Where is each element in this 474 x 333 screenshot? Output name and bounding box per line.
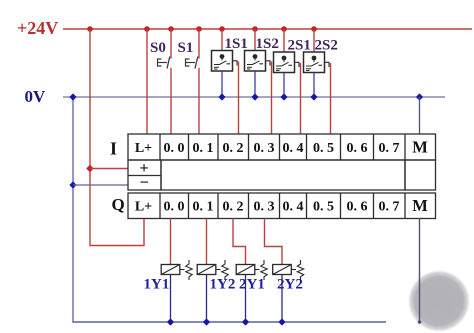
wire bottom 0V return [72, 321, 386, 323]
svg-text:1S1: 1S1 [225, 36, 248, 52]
svg-text:L+: L+ [135, 200, 152, 215]
node plus junction x90 [86, 165, 94, 173]
wire Q0.2 to 2Y1 [233, 219, 246, 265]
table row Q outline [128, 193, 436, 219]
solenoid 1Y1 [161, 260, 192, 322]
svg-text:0. 5: 0. 5 [313, 141, 334, 156]
table middle region [161, 160, 405, 190]
wire Q0.1 to 1Y2 [206, 219, 208, 265]
wire Q0.0 to 1Y1 [170, 219, 172, 265]
solenoid 1Y2 [197, 260, 228, 322]
svg-text:0. 1: 0. 1 [193, 200, 214, 215]
sensor 1S2 [245, 29, 272, 134]
sensor 2S1 [274, 29, 301, 134]
solenoid 2Y2 [273, 260, 304, 322]
row I cell texts [135, 141, 400, 156]
svg-text:0. 2: 0. 2 [223, 200, 244, 215]
wire 0V rail [63, 96, 445, 98]
svg-text:0. 4: 0. 4 [283, 200, 304, 215]
svg-text:S1: S1 [178, 40, 194, 56]
svg-text:2S2: 2S2 [315, 38, 338, 54]
wire M to 0V [419, 97, 421, 134]
table plus-minus box [128, 160, 161, 190]
node minus junction x73 [69, 181, 76, 188]
svg-text:+24V: +24V [17, 18, 58, 38]
node rail junction x199 [196, 26, 202, 32]
wire +24V rail [63, 28, 472, 30]
node rail junction x147 [144, 26, 150, 32]
svg-text:Q: Q [112, 195, 125, 214]
svg-text:2Y2: 2Y2 [277, 277, 303, 293]
PLC I/Q terminal table [128, 134, 436, 219]
table row I outline [128, 134, 436, 160]
svg-text:M: M [412, 138, 428, 157]
svg-text:1Y2: 1Y2 [210, 277, 236, 293]
node bottom junction 2Y2 [278, 318, 285, 325]
svg-text:L+: L+ [135, 141, 152, 156]
svg-text:0. 0: 0. 0 [164, 141, 185, 156]
svg-text:2Y1: 2Y1 [239, 277, 265, 293]
switch S1 [186, 29, 200, 134]
node bottom junction 1Y1 [167, 318, 174, 325]
svg-text:0. 5: 0. 5 [313, 200, 334, 215]
svg-text:0. 6: 0. 6 [347, 200, 368, 215]
wire M to bottom [419, 219, 421, 322]
switch S0 [158, 29, 172, 134]
svg-text:2S1: 2S1 [288, 38, 311, 54]
svg-text:0. 2: 0. 2 [223, 141, 244, 156]
svg-text:0. 7: 0. 7 [379, 200, 400, 215]
svg-text:0. 4: 0. 4 [283, 141, 304, 156]
sensor 1S1 [212, 29, 239, 134]
node bottom junction 1Y2 [203, 318, 210, 325]
wire left blue vertical [72, 97, 74, 322]
wire left red vertical x90 [90, 29, 144, 246]
sensor 2S2 [304, 29, 331, 134]
node 0V junction x73 [69, 93, 76, 100]
wire minus terminal [73, 184, 128, 186]
node rail junction x314 [311, 26, 317, 32]
svg-text:I: I [110, 139, 117, 159]
svg-text:0. 6: 0. 6 [347, 141, 368, 156]
svg-text:0. 3: 0. 3 [254, 141, 275, 156]
node rail junction x171 [168, 26, 174, 32]
wire Q0.3 to 2Y2 [265, 219, 283, 265]
table M middle cell [405, 160, 436, 190]
svg-text:S0: S0 [150, 40, 166, 56]
svg-text:M: M [412, 196, 428, 215]
svg-text:0. 7: 0. 7 [379, 141, 400, 156]
node rail junction x255 [252, 26, 258, 32]
svg-text:−: − [139, 175, 148, 192]
svg-text:1Y1: 1Y1 [144, 277, 170, 293]
wire plus terminal [90, 168, 128, 170]
node rail junction x222 [219, 26, 225, 32]
node bottom junction 2Y1 [242, 318, 249, 325]
svg-text:0. 0: 0. 0 [164, 200, 185, 215]
svg-text:0. 3: 0. 3 [254, 200, 275, 215]
wire I row L+ drop x147 [146, 29, 148, 134]
row Q cell texts [135, 200, 400, 215]
svg-text:0. 1: 0. 1 [193, 141, 214, 156]
node rail junction x284 [281, 26, 287, 32]
node rail junction x90 [87, 26, 93, 32]
node 0V junction M [416, 93, 423, 100]
solenoid 2Y1 [236, 260, 267, 322]
svg-text:0V: 0V [25, 87, 47, 106]
svg-text:1S2: 1S2 [256, 36, 279, 52]
